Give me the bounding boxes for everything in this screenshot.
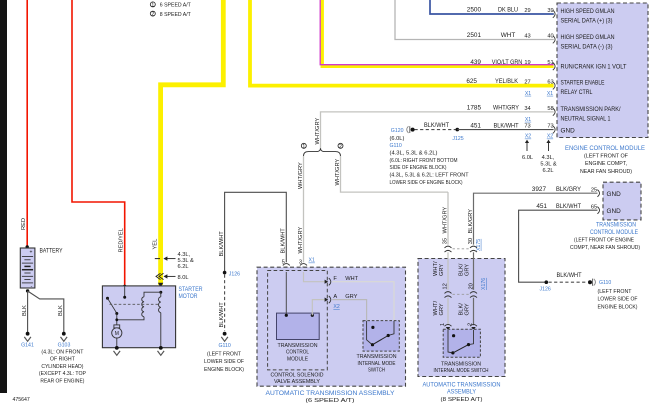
wire WHT/GRY 1785 park/neutral signal xyxy=(315,105,555,151)
ground G110 right xyxy=(588,279,638,311)
wire YEL heavy starter feed xyxy=(153,0,224,285)
svg-text:625: 625 xyxy=(466,78,477,85)
starter solenoid contact switch xyxy=(106,297,118,325)
svg-text:SERIAL DATA (+) (3): SERIAL DATA (+) (3) xyxy=(561,17,613,24)
svg-text:451: 451 xyxy=(470,122,481,129)
svg-text:(6.0L): (6.0L) xyxy=(390,136,405,142)
svg-text:BLK/WHT: BLK/WHT xyxy=(219,231,225,257)
starter motor M xyxy=(112,325,122,348)
svg-text:TRANSMISSION: TRANSMISSION xyxy=(596,221,636,228)
svg-text:OF RIGHT: OF RIGHT xyxy=(50,357,75,363)
wire BLK/GRY 3927 xyxy=(468,186,600,245)
wire YEL gauge tick 4.3/5.3/6.2L xyxy=(155,252,194,270)
svg-text:BLK/WHT: BLK/WHT xyxy=(494,122,519,129)
svg-text:BLK/GRY: BLK/GRY xyxy=(556,186,582,193)
svg-text:2: 2 xyxy=(151,12,154,18)
connector 6spd box pin 5 xyxy=(283,264,290,273)
svg-text:ENGINE BLOCK): ENGINE BLOCK) xyxy=(598,304,638,310)
svg-text:X2: X2 xyxy=(525,134,531,140)
wire WHT/GRY drop to X175 xyxy=(442,192,448,245)
svg-text:ENGINE CONTROL MODULE: ENGINE CONTROL MODULE xyxy=(565,145,645,152)
svg-text:40: 40 xyxy=(547,33,553,39)
svg-text:(EXCEPT 4.3L: TOP: (EXCEPT 4.3L: TOP xyxy=(39,371,86,377)
svg-text:+: + xyxy=(30,249,33,255)
svg-text:X1: X1 xyxy=(525,117,531,123)
mode switch 8spd contacts xyxy=(448,330,474,355)
wire WHT/GRY inside 8spd to X176 xyxy=(433,252,449,289)
connector X176 right half xyxy=(470,292,477,298)
svg-text:(LEFT FRONT: (LEFT FRONT xyxy=(207,351,241,357)
svg-text:VALVE ASSEMBLY: VALVE ASSEMBLY xyxy=(274,379,320,385)
transmission internal mode switch 6spd xyxy=(357,321,400,374)
wire RED/YEL to starter solenoid xyxy=(72,0,126,288)
svg-text:GRY: GRY xyxy=(439,264,445,276)
svg-text:35: 35 xyxy=(442,238,448,244)
svg-text:29: 29 xyxy=(524,8,530,14)
svg-text:STARTER: STARTER xyxy=(179,286,203,293)
svg-text:LOWER SIDE OF ENGINE BLOCK): LOWER SIDE OF ENGINE BLOCK) xyxy=(390,180,463,186)
svg-text:INTERNAL MODE SWITCH: INTERNAL MODE SWITCH xyxy=(434,368,489,374)
svg-text:REAR OF ENGINE): REAR OF ENGINE) xyxy=(40,379,84,385)
wire BLK/WHT dashed to G110 right xyxy=(549,272,587,282)
svg-text:GRY: GRY xyxy=(465,303,471,315)
svg-text:TRANSMISSION: TRANSMISSION xyxy=(441,361,481,367)
svg-text:58: 58 xyxy=(547,106,553,112)
wire GRY to mode switch xyxy=(332,300,366,322)
svg-text:G103: G103 xyxy=(58,342,71,348)
svg-text:(6.0L: RIGHT FRONT BOTTOM: (6.0L: RIGHT FRONT BOTTOM xyxy=(390,158,458,164)
svg-text:(LEFT FRONT OF ENGINE: (LEFT FRONT OF ENGINE xyxy=(574,238,634,244)
svg-text:BLK/: BLK/ xyxy=(458,263,464,276)
svg-text:BLK/WHT: BLK/WHT xyxy=(557,272,582,279)
wire BLK/WHT dashed G120 to J125 xyxy=(415,122,456,130)
ground G141 xyxy=(21,332,34,349)
svg-text:BLK: BLK xyxy=(58,305,64,316)
engine control module box xyxy=(557,3,648,138)
wire DK BLU 2500 gmlan plus xyxy=(430,0,555,18)
svg-text:6.2L: 6.2L xyxy=(542,168,553,174)
svg-text:WHT/: WHT/ xyxy=(433,301,439,316)
svg-text:MOTOR: MOTOR xyxy=(179,293,198,300)
svg-text:(LEFT FRONT OF: (LEFT FRONT OF xyxy=(584,154,628,160)
svg-text:ASSEMBLY: ASSEMBLY xyxy=(447,389,477,396)
svg-text:WHT/: WHT/ xyxy=(433,261,439,276)
starter coil feed node xyxy=(144,291,162,297)
svg-text:73: 73 xyxy=(547,124,553,130)
svg-text:X2: X2 xyxy=(333,304,339,310)
svg-text:(4.3L: ON FRONT: (4.3L: ON FRONT xyxy=(41,349,83,355)
svg-text:J126: J126 xyxy=(540,286,551,292)
svg-text:RED/YEL: RED/YEL xyxy=(118,228,124,252)
svg-text:X2: X2 xyxy=(547,134,553,140)
svg-text:GND: GND xyxy=(561,127,576,134)
svg-text:CYLINDER HEAD): CYLINDER HEAD) xyxy=(41,364,83,370)
svg-text:TRANSMISSION: TRANSMISSION xyxy=(278,343,318,349)
splice J125 xyxy=(452,128,463,142)
svg-text:2500: 2500 xyxy=(467,7,482,14)
svg-text:J126: J126 xyxy=(229,272,240,278)
svg-text:451: 451 xyxy=(536,203,547,210)
svg-text:6 SPEED A/T: 6 SPEED A/T xyxy=(160,3,191,9)
svg-text:GRY: GRY xyxy=(465,264,471,276)
wire RED battery feed xyxy=(21,0,29,249)
svg-text:CONTROL MODULE: CONTROL MODULE xyxy=(590,229,638,236)
transmission control module 6spd xyxy=(277,313,320,362)
battery xyxy=(20,248,63,293)
svg-text:VIO/LT GRN: VIO/LT GRN xyxy=(492,59,523,66)
svg-text:1785: 1785 xyxy=(467,105,482,112)
svg-text:5.3L &: 5.3L & xyxy=(540,162,556,168)
svg-text:8 SPEED A/T: 8 SPEED A/T xyxy=(160,12,191,18)
automatic transmission assembly 6 speed box xyxy=(257,267,406,404)
svg-text:BLK/: BLK/ xyxy=(458,303,464,316)
splice J126 left xyxy=(223,271,240,278)
svg-text:X1: X1 xyxy=(525,91,531,97)
svg-text:12: 12 xyxy=(443,283,449,289)
engine control module caption xyxy=(565,145,645,175)
svg-text:(6 SPEED A/T): (6 SPEED A/T) xyxy=(306,398,355,404)
splice J126 right xyxy=(540,280,551,292)
connector X175 left half xyxy=(445,246,452,252)
svg-text:YEL/BLK: YEL/BLK xyxy=(495,78,519,85)
svg-text:STARTER ENABLE: STARTER ENABLE xyxy=(561,80,605,87)
connector X176 left half xyxy=(445,292,452,298)
svg-text:SERIAL DATA (-) (3): SERIAL DATA (-) (3) xyxy=(561,44,613,51)
svg-text:M: M xyxy=(115,331,119,337)
svg-text:COMPT, NEAR FAN SHROUD): COMPT, NEAR FAN SHROUD) xyxy=(570,245,640,251)
svg-text:LOWER SIDE OF: LOWER SIDE OF xyxy=(204,359,244,365)
svg-text:475647: 475647 xyxy=(13,397,30,403)
starter hold-in coil xyxy=(159,292,161,348)
svg-text:NEUTRAL SIGNAL 1: NEUTRAL SIGNAL 1 xyxy=(561,116,611,123)
connector 6spd box pin 3 xyxy=(300,264,307,273)
ground G110 left xyxy=(204,332,244,373)
ground location note G120/G110 xyxy=(390,136,469,186)
svg-text:1: 1 xyxy=(302,144,305,150)
svg-text:AUTOMATIC TRANSMISSION ASSEMBL: AUTOMATIC TRANSMISSION ASSEMBLY xyxy=(266,390,396,397)
starter yellow entry arrow xyxy=(158,283,163,288)
wire pin5 into TCM xyxy=(285,272,288,317)
svg-text:RUN/CRANK IGN 1 VOLT: RUN/CRANK IGN 1 VOLT xyxy=(561,63,627,70)
svg-text:WHT/GRY: WHT/GRY xyxy=(335,159,341,186)
svg-text:4.3L,: 4.3L, xyxy=(542,155,555,161)
ground G103 xyxy=(39,332,86,385)
svg-text:G110: G110 xyxy=(390,143,402,149)
wire BLK battery to G141 xyxy=(22,291,28,333)
svg-text:CONTROL SOLENOID: CONTROL SOLENOID xyxy=(271,372,324,378)
wire YEL gauge chevron 8.0L xyxy=(156,273,189,281)
svg-text:BLK/WHT: BLK/WHT xyxy=(219,302,225,328)
svg-text:INTERNAL MODE: INTERNAL MODE xyxy=(358,361,396,367)
svg-text:CONTROL: CONTROL xyxy=(286,350,309,356)
transmission control module gnd box xyxy=(603,182,641,220)
svg-text:X1: X1 xyxy=(309,258,315,264)
starter case ground left xyxy=(114,346,121,355)
svg-text:439: 439 xyxy=(470,59,481,66)
svg-text:BLK/WHT: BLK/WHT xyxy=(281,228,287,254)
svg-text:G120: G120 xyxy=(391,128,404,134)
svg-text:65: 65 xyxy=(591,204,597,210)
svg-text:G110: G110 xyxy=(218,343,230,349)
svg-text:YEL: YEL xyxy=(153,239,159,250)
wire WHT/GRY branch 1 to 6spd xyxy=(298,156,315,266)
svg-text:HIGH SPEED GMLAN: HIGH SPEED GMLAN xyxy=(561,8,615,15)
svg-text:X175: X175 xyxy=(476,239,482,251)
svg-text:TRANSMISSION PARK/: TRANSMISSION PARK/ xyxy=(561,106,621,113)
svg-text:73: 73 xyxy=(524,124,530,130)
svg-text:WHT/GRY: WHT/GRY xyxy=(298,227,304,254)
wire WHT 2501 gmlan minus xyxy=(395,0,555,43)
svg-text:BLK/GRY: BLK/GRY xyxy=(468,209,474,234)
svg-text:BLK/WHT: BLK/WHT xyxy=(556,203,581,210)
svg-text:51: 51 xyxy=(547,60,553,66)
connector X175 tie line and label xyxy=(453,239,482,251)
svg-text:LOWER SIDE OF: LOWER SIDE OF xyxy=(598,297,638,303)
svg-text:WHT/GRY: WHT/GRY xyxy=(442,207,448,234)
starter B+ stub xyxy=(123,287,126,299)
wire BLK/GRY inside 8spd to X176 xyxy=(458,252,474,289)
ground splice G120 xyxy=(391,126,415,134)
svg-text:8.0L: 8.0L xyxy=(178,275,189,281)
control solenoid valve assembly box xyxy=(268,271,328,386)
connector X175 right half xyxy=(470,246,477,252)
wire pin3 WHT/GRY to F connector xyxy=(304,272,329,284)
svg-text:J125: J125 xyxy=(452,136,463,142)
wire TCM to A connector xyxy=(311,298,329,317)
svg-text:BLK/WHT: BLK/WHT xyxy=(424,122,449,129)
svg-text:20: 20 xyxy=(468,283,474,289)
connector X176 tie line and label xyxy=(453,278,488,295)
transmission internal mode switch 8spd xyxy=(434,329,489,374)
engine variant arrows under ECM xyxy=(522,140,557,175)
switch entry connector pin 1 xyxy=(445,324,452,330)
svg-text:ENGINE COMPT,: ENGINE COMPT, xyxy=(585,161,627,167)
wire WHT/GRY branch 2 upper run xyxy=(335,156,448,192)
svg-text:GND: GND xyxy=(607,208,622,215)
svg-text:3927: 3927 xyxy=(532,186,547,193)
svg-text:(4.3L, 5.3L & 6.2L): (4.3L, 5.3L & 6.2L) xyxy=(390,151,438,157)
svg-text:WHT/GRY: WHT/GRY xyxy=(298,162,304,189)
svg-text:RED: RED xyxy=(21,218,27,230)
switch entry connector pin 2 xyxy=(470,324,477,330)
svg-text:1: 1 xyxy=(151,2,154,8)
wire VIO/LT GRN 439 run/crank ign xyxy=(320,0,555,70)
svg-text:X1: X1 xyxy=(547,91,553,97)
automatic transmission assembly 8 speed box xyxy=(418,259,505,403)
svg-text:AUTOMATIC TRANSMISSION: AUTOMATIC TRANSMISSION xyxy=(423,381,501,388)
svg-text:RELAY CTRL: RELAY CTRL xyxy=(561,89,593,96)
svg-text:34: 34 xyxy=(524,106,530,112)
wire WHT to mode switch xyxy=(332,282,394,322)
svg-text:19: 19 xyxy=(524,60,530,66)
wire BLK/WHT 451 to ECM gnd xyxy=(457,122,555,139)
svg-text:G141: G141 xyxy=(21,342,34,348)
svg-text:ENGINE BLOCK): ENGINE BLOCK) xyxy=(204,367,244,373)
svg-text:30: 30 xyxy=(468,238,474,244)
wire BLK battery to G103 xyxy=(28,291,65,333)
svg-text:BLK: BLK xyxy=(22,305,28,316)
svg-text:25: 25 xyxy=(591,187,597,193)
wire YEL/BLK 625 starter enable relay ctrl xyxy=(250,0,555,97)
svg-text:WHT/GRY: WHT/GRY xyxy=(493,105,520,112)
svg-text:(8 SPEED A/T): (8 SPEED A/T) xyxy=(441,397,483,403)
svg-text:SWITCH: SWITCH xyxy=(368,368,385,374)
svg-text:39: 39 xyxy=(547,8,553,14)
mode switch 6spd contacts xyxy=(367,321,394,346)
svg-text:GRY: GRY xyxy=(439,303,445,315)
svg-text:6.2L: 6.2L xyxy=(178,264,189,270)
svg-text:63: 63 xyxy=(547,80,553,86)
svg-text:NEAR FAN SHROUD): NEAR FAN SHROUD) xyxy=(580,169,632,175)
wire WHT/GRY X176 to switch pin 1 xyxy=(433,298,448,326)
svg-text:WHT/GRY: WHT/GRY xyxy=(315,118,321,145)
svg-text:MODULE: MODULE xyxy=(287,356,308,362)
starter motor assembly xyxy=(102,286,202,348)
svg-text:TRANSMISSION: TRANSMISSION xyxy=(357,354,397,360)
svg-text:G110: G110 xyxy=(599,280,611,286)
svg-text:6.0L: 6.0L xyxy=(522,155,533,161)
svg-text:X176: X176 xyxy=(481,278,487,290)
wire BLK/WHT dashed to G110 left xyxy=(219,275,225,332)
svg-text:2: 2 xyxy=(339,144,342,150)
wire BLK/GRY X176 to switch pin 2 xyxy=(458,298,473,326)
starter pull-in coil xyxy=(115,297,144,321)
svg-text:43: 43 xyxy=(524,33,530,39)
starter case ground right xyxy=(158,346,165,355)
connector F xyxy=(329,276,359,285)
starter mechanical link dashed xyxy=(110,303,160,305)
split brace 6spd/8spd xyxy=(301,143,343,156)
wire BLK/WHT 451 to TCM gnd xyxy=(519,203,600,282)
svg-text:WHT: WHT xyxy=(501,32,516,39)
svg-text:SIDE OF ENGINE BLOCK): SIDE OF ENGINE BLOCK) xyxy=(390,165,447,171)
svg-text:(LEFT FRONT: (LEFT FRONT xyxy=(598,289,632,295)
svg-text:BATTERY: BATTERY xyxy=(40,248,64,255)
wire BLK/WHT J126 to 6spd pin 5 xyxy=(219,192,287,271)
svg-text:HIGH SPEED GMLAN: HIGH SPEED GMLAN xyxy=(561,34,615,41)
legend note 1: 6 speed A/T xyxy=(150,2,191,9)
connector A xyxy=(329,294,358,310)
svg-text:GND: GND xyxy=(607,191,622,198)
transmission control module caption xyxy=(570,221,640,251)
svg-text:27: 27 xyxy=(524,80,530,86)
svg-text:2501: 2501 xyxy=(467,32,482,39)
svg-text:(4.3L, 5.3L & 6.2L: LEFT FRONT: (4.3L, 5.3L & 6.2L: LEFT FRONT xyxy=(390,173,469,179)
legend note 2: 8 speed A/T xyxy=(150,11,191,18)
svg-text:DK BLU: DK BLU xyxy=(498,7,518,14)
